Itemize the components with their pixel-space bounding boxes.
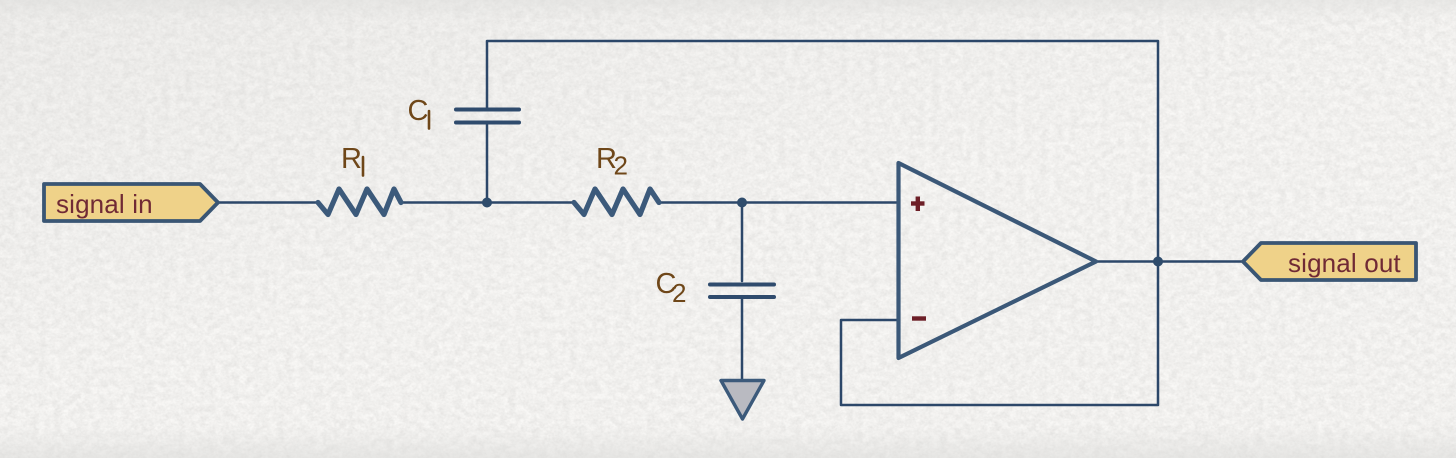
- svg-text:R: R: [341, 143, 362, 175]
- svg-text:2: 2: [672, 278, 686, 308]
- svg-text:C: C: [408, 95, 429, 127]
- svg-text:signal out: signal out: [1288, 248, 1401, 278]
- svg-text:signal in: signal in: [56, 189, 153, 219]
- svg-text:2: 2: [614, 151, 628, 181]
